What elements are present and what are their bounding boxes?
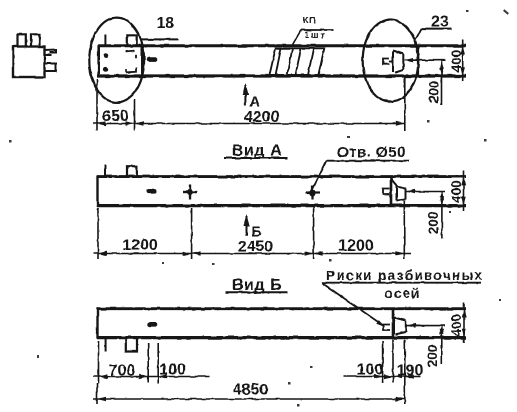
svg-text:18: 18 [157, 15, 175, 32]
svg-text:100: 100 [159, 362, 186, 379]
beam elevation top line [98, 44, 466, 47]
svg-text:100: 100 [357, 362, 384, 379]
dim text 190 [397, 363, 424, 380]
svg-text:Отв. Ø50: Отв. Ø50 [337, 144, 406, 161]
dim 200 text (vid A) [426, 212, 441, 235]
bolt dot 2 [103, 67, 108, 72]
beam elevation bottom line [97, 74, 466, 77]
dim 4850 line [93, 398, 405, 400]
dim 400 text (elevation) [449, 50, 464, 73]
svg-text:4200: 4200 [244, 109, 280, 126]
tick above beam left [104, 34, 106, 46]
dim 200 right (vid A) [441, 192, 443, 239]
svg-text:400: 400 [449, 314, 464, 337]
svg-text:осей: осей [385, 286, 421, 301]
axis reference arrow (vid B) [407, 323, 416, 327]
svg-text:Вид А: Вид А [232, 142, 283, 159]
label 23 leader [415, 29, 422, 41]
svg-text:КП: КП [303, 16, 316, 26]
dim 4850 extensions [97, 383, 405, 404]
dim arrows 650/4200 [97, 121, 405, 125]
console shoe (vid B) [394, 318, 406, 335]
beam elevation right end edge [417, 45, 419, 76]
dim text 700 [109, 363, 136, 380]
dim text 1200 right [338, 238, 374, 255]
bolt dot 1 [103, 53, 108, 58]
svg-text:4850: 4850 [233, 382, 269, 399]
dim 4850 arrows [97, 397, 405, 401]
tick above beam (vid A) [104, 165, 106, 177]
axis reference line (elevation) [405, 59, 446, 61]
header Vid B underline [226, 291, 289, 293]
axis reference line (vid B) [407, 325, 446, 327]
beam (vid A) top line [97, 175, 466, 178]
dim 400 text (vid B) [449, 314, 464, 337]
label Otv leader [312, 161, 327, 190]
label Otv underline [327, 160, 410, 162]
bottom dim line (elevation) [93, 123, 405, 125]
beam elevation left edge [97, 45, 100, 77]
svg-text:Вид Б: Вид Б [232, 277, 283, 294]
beam (vid A) end edge [390, 176, 393, 207]
section arrow A [244, 85, 246, 106]
svg-text:А: А [250, 94, 261, 111]
dim 400 text (vid A) [449, 180, 464, 203]
label 23 underline [422, 28, 452, 30]
beam (vid B) end edge [392, 308, 395, 339]
header Vid B [232, 277, 283, 294]
section detail square [13, 47, 45, 78]
axis reference arrow (vid A) [406, 189, 415, 193]
svg-text:1200: 1200 [338, 238, 374, 255]
console shoe (vid A) [392, 180, 406, 201]
dim text 100 left [159, 362, 186, 379]
beam (vid B) bottom line [97, 336, 466, 339]
hidden embed dashed bracket [126, 51, 137, 73]
label 18 underline [141, 38, 179, 40]
hole cross mark (Otv 50) [306, 186, 321, 200]
svg-text:650: 650 [102, 108, 129, 125]
label Otv d50 [337, 144, 406, 161]
label riski leader [322, 283, 384, 326]
row1 extensions left [99, 341, 159, 383]
embed plate mark (vid B) [147, 322, 158, 327]
bottom dim line (vid A) [93, 253, 411, 255]
dim 200 text (elevation) [427, 81, 442, 104]
header Vid A [232, 142, 283, 159]
svg-text:1шт: 1шт [304, 30, 327, 40]
dim text 100 right [357, 362, 384, 379]
label 18 [157, 15, 175, 32]
beam (vid B) top line [97, 307, 466, 310]
dim text 2450 [238, 239, 274, 256]
svg-text:400: 400 [449, 50, 464, 73]
svg-text:400: 400 [449, 180, 464, 203]
extension right x404.8 [404, 77, 406, 131]
KP leader [292, 30, 302, 47]
section detail right fork [45, 50, 57, 55]
detail ellipse 18 (left end) [89, 18, 144, 103]
strop hatch parallelogram KP [270, 48, 325, 75]
label riski underline [322, 282, 482, 284]
dim 400 right (elevation) [462, 40, 464, 82]
dim text 4850 [233, 382, 269, 399]
console c-mark (vid A) [383, 189, 390, 195]
extension left x97 [96, 79, 98, 131]
svg-text:2450: 2450 [238, 239, 274, 256]
header Vid A underline [225, 157, 289, 159]
section letter B [251, 224, 262, 241]
row1 extensions right [383, 340, 405, 384]
tab below beam (vid B) [126, 338, 137, 352]
svg-text:700: 700 [109, 363, 136, 380]
bottom dim row1 right segment [344, 376, 421, 378]
KP fraction bar [301, 29, 334, 31]
extension x134.5 [134, 99, 136, 131]
dim 200 right (vid B) [441, 326, 443, 364]
embed plate mark (vid A) [146, 189, 157, 194]
svg-text:200: 200 [426, 212, 441, 235]
svg-text:190: 190 [397, 363, 424, 380]
svg-text:200: 200 [425, 345, 440, 368]
section detail top tab 1 [18, 34, 26, 46]
console c-mark (vid B) [384, 325, 391, 331]
svg-text:Риски разбивочных: Риски разбивочных [326, 268, 483, 283]
top tab (vid A) [127, 166, 137, 176]
beam (vid A) bottom line [97, 204, 466, 207]
tick below beam (vid B) [105, 338, 107, 352]
section letter A [250, 94, 261, 111]
dim 400 right (vid A) [463, 171, 465, 212]
dim 200 text (vid B) [425, 345, 440, 368]
dim 400 right (vid B) [463, 303, 465, 344]
console small c-mark (elevation) [383, 59, 393, 64]
embed plate mark (elevation) [146, 57, 157, 62]
lifting cross mark [183, 185, 198, 200]
dim arrows (vid A) [98, 251, 404, 255]
label 23 [431, 14, 449, 31]
detail ellipse 23 (right end) [363, 20, 419, 102]
svg-text:200: 200 [427, 81, 442, 104]
svg-text:1200: 1200 [122, 237, 158, 254]
axis reference line (vid A) [406, 191, 445, 193]
section detail right lower tab [45, 64, 56, 72]
beam (vid B) left edge [96, 308, 98, 339]
label riski razbivochnyh [326, 268, 483, 283]
label osei [385, 286, 421, 301]
section arrow B [246, 216, 248, 236]
dim text 4200 [244, 109, 280, 126]
extensions (vid A) [98, 201, 404, 259]
bottom dim row1 left segment [93, 376, 210, 378]
row1 arrows [99, 374, 414, 378]
beam elevation end-block line [141, 46, 143, 76]
section detail top tab 2 [31, 34, 40, 46]
KP label text [303, 16, 327, 40]
top tab on beam [127, 35, 136, 45]
beam (vid A) left edge [96, 176, 98, 207]
console shoe (elevation) [393, 51, 404, 73]
dim 200 right (elevation) [441, 60, 443, 105]
dim text 650 [102, 108, 129, 125]
dim text 1200 left [122, 237, 158, 254]
axis reference arrow (elevation) [405, 58, 414, 62]
